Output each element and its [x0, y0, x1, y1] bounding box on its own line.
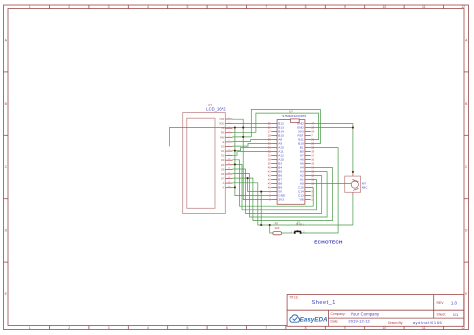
- wire LCD pin16 K stub to GND column: [233, 186, 235, 188]
- svg-text:D0: D0: [221, 145, 225, 149]
- svg-text:6: 6: [226, 5, 228, 9]
- junction dot 5V pin row: [260, 191, 262, 193]
- svg-text:Company:: Company:: [331, 312, 346, 316]
- junction dot D1 row / GND column: [234, 150, 236, 152]
- U1 right pin names GND..VB: [297, 122, 305, 202]
- wire net B1: U1 B1 down to push button pin 2: [302, 148, 338, 233]
- svg-text:2: 2: [68, 326, 70, 330]
- svg-text:ECHOTECH: ECHOTECH: [314, 240, 343, 245]
- svg-text:D6: D6: [221, 172, 225, 176]
- svg-text:40: 40: [268, 166, 271, 170]
- wire resistor R? to push button pin 1: [282, 232, 293, 234]
- svg-text:LCD_16*2: LCD_16*2: [206, 106, 226, 111]
- wire net B12: LCD pin2 VDD to U1 B12: [233, 123, 272, 125]
- frame row ticks left: [4, 72, 9, 262]
- microphone M1 bottom pin stub: [352, 192, 354, 195]
- junction dot RW row crossing: [242, 136, 244, 138]
- junction dot D7 row 5V tap: [247, 177, 249, 179]
- svg-text:10: 10: [383, 5, 387, 9]
- svg-text:TITLE:: TITLE:: [289, 296, 299, 300]
- svg-text:3V3: 3V3: [278, 198, 284, 202]
- svg-text:38: 38: [268, 158, 271, 162]
- svg-text:Date:: Date:: [331, 320, 339, 324]
- svg-text:45: 45: [268, 182, 271, 186]
- wire MIC bottom pin down to backlight row: [352, 196, 354, 226]
- wire net A10: LCD pin8 D1 to U1 A10: [233, 148, 272, 151]
- EasyEDA logo cloud: [290, 315, 300, 322]
- svg-text:1: 1: [29, 5, 31, 9]
- frame row letters left: [5, 38, 8, 296]
- svg-text:4: 4: [147, 5, 149, 9]
- svg-text:RS: RS: [221, 131, 225, 135]
- LCD pin numbers 1-16: [228, 117, 231, 188]
- svg-text:28: 28: [268, 134, 271, 138]
- wire net A9: LCD pin7 D0 to U1 A9: [233, 144, 272, 147]
- svg-text:15: 15: [311, 162, 314, 166]
- svg-text:27: 27: [268, 130, 271, 134]
- junction dot K / GND column: [234, 186, 236, 188]
- svg-text:VSS: VSS: [219, 117, 224, 121]
- svg-text:1: 1: [29, 326, 31, 330]
- svg-text:MIC: MIC: [362, 185, 368, 189]
- svg-text:41: 41: [268, 170, 271, 174]
- LCD pin names VSS..K: [219, 117, 225, 190]
- title block vertical divider logo cell: [327, 310, 329, 326]
- svg-text:11: 11: [422, 5, 426, 9]
- svg-text:D1: D1: [221, 149, 225, 153]
- U1 USB connector notch: [291, 119, 300, 123]
- svg-text:3: 3: [108, 326, 110, 330]
- wire net A2: LCD pin12 D5 wrap under U1 to A2: [233, 169, 322, 213]
- svg-text:24: 24: [311, 130, 314, 134]
- wire net C15: LCD pin10 D3 wrap under U1 to C15: [233, 160, 314, 206]
- LCD pin stubs 1-16: [225, 119, 232, 188]
- svg-text:33: 33: [268, 154, 271, 158]
- svg-text:VB: VB: [300, 198, 304, 202]
- frame column numbers top: [29, 5, 465, 9]
- svg-text:220: 220: [275, 226, 280, 230]
- svg-text:RW: RW: [220, 135, 225, 139]
- svg-text:5: 5: [186, 5, 188, 9]
- svg-text:3: 3: [108, 5, 110, 9]
- wire net LCD-A backlight row to MIC bottom column: [233, 183, 353, 225]
- svg-text:V0: V0: [221, 126, 225, 130]
- junction dot GND2 joins MIC column: [352, 127, 354, 129]
- title block vertical divider REV cell: [433, 295, 435, 319]
- svg-text:E: E: [223, 140, 225, 144]
- svg-text:STM32F103C8T6: STM32F103C8T6: [282, 114, 306, 118]
- svg-text:PUSH: PUSH: [296, 223, 304, 227]
- wire net GND-left: column from V0 row to U1 GND: [235, 128, 271, 196]
- U1 right pin stubs: [305, 124, 311, 200]
- junction dot resistor tap: [269, 224, 271, 226]
- svg-text:aydinali0156: aydinali0156: [413, 320, 443, 325]
- wire net GND: U1 GND right pin to MIC top: [311, 124, 353, 173]
- svg-text:7: 7: [265, 326, 267, 330]
- microcontroller U1 STM32F103C8T6 body: [277, 120, 305, 205]
- svg-text:D3: D3: [221, 158, 225, 162]
- frame column numbers bottom: [29, 326, 465, 330]
- svg-text:2: 2: [68, 5, 70, 9]
- LCD module U? LCD_16*2 outer body: [183, 113, 226, 214]
- microphone M1 top pin stub: [352, 173, 354, 177]
- junction dot D4 row / GND column: [234, 163, 236, 165]
- title block outline: [287, 295, 464, 327]
- junction dot V0/3V3 column: [242, 127, 244, 129]
- wire net B11: LCD pin4 RS over top to U1 B11: [233, 113, 319, 140]
- wire net A3: LCD pin13 D6 wrap under U1 to A3: [233, 172, 328, 217]
- svg-text:5: 5: [186, 326, 188, 330]
- wire net GND2: U1 second GND right pin joins MIC column: [311, 127, 353, 129]
- svg-text:17: 17: [311, 154, 314, 158]
- svg-text:18: 18: [311, 150, 314, 154]
- svg-text:12: 12: [461, 5, 465, 9]
- wire net 5V: tap from D7 row to U1 5V pin: [248, 178, 272, 192]
- svg-text:42: 42: [268, 174, 271, 178]
- svg-text:2019-12-12: 2019-12-12: [348, 319, 370, 324]
- wire net A8: LCD pin6 E to U1 A8: [233, 140, 272, 142]
- svg-text:D4: D4: [221, 163, 225, 167]
- svg-text:1/1: 1/1: [453, 313, 458, 317]
- wire net 5V drop to backlight row: [260, 192, 262, 225]
- svg-text:7: 7: [265, 5, 267, 9]
- junction dot MIC top pin: [352, 171, 354, 173]
- svg-text:Sheet_1: Sheet_1: [312, 300, 336, 306]
- U1 left pin stubs: [271, 124, 277, 200]
- microphone M1 slash strokes: [352, 180, 358, 191]
- frame row letters right: [465, 38, 468, 296]
- wire backlight row tap down to resistor R?: [270, 225, 273, 233]
- svg-text:VDD: VDD: [219, 122, 225, 126]
- LCD display window inner rect: [187, 118, 215, 208]
- title block row divider 2: [328, 317, 463, 319]
- svg-text:D2: D2: [221, 154, 225, 158]
- frame row ticks right: [464, 72, 469, 262]
- wire net A0: U1 A0 to MIC left pin: [311, 183, 345, 185]
- svg-text:16: 16: [311, 158, 314, 162]
- wire net 3V3: LCD pin1 VSS down column to U1 3V3: [233, 119, 272, 199]
- svg-text:43: 43: [268, 178, 271, 182]
- svg-text:EasyEDA: EasyEDA: [300, 316, 328, 323]
- frame column ticks bottom: [50, 326, 444, 330]
- wire net B10: LCD pin5 RW over top to U1 B10: [233, 110, 321, 144]
- svg-text:8: 8: [305, 5, 307, 9]
- U1 right pin numbers: [311, 122, 314, 202]
- wire net A4: LCD pin14 D7 wrap under U1 to A4: [233, 168, 333, 221]
- resistor R? body: [273, 232, 282, 235]
- wire net A1: LCD pin11 D4 wrap under U1 to A1: [233, 164, 317, 209]
- wire net A11: LCD pin9 D2 to U1 A11: [233, 152, 272, 156]
- microphone M1 body box: [345, 176, 361, 192]
- svg-text:9: 9: [344, 5, 346, 9]
- svg-text:46: 46: [268, 186, 271, 190]
- U1 left pin names B12..3V3: [278, 122, 286, 202]
- U1 left pin numbers: [268, 122, 272, 202]
- junction dot V0/GND column: [234, 127, 236, 129]
- svg-text:D7: D7: [221, 177, 225, 181]
- svg-text:Sheet:: Sheet:: [437, 313, 447, 317]
- junction dot 5V drop on backlight row: [260, 224, 262, 226]
- svg-text:D5: D5: [221, 167, 225, 171]
- svg-text:6: 6: [226, 326, 228, 330]
- svg-text:39: 39: [268, 162, 271, 166]
- push button S? terminals and cap: [294, 230, 302, 234]
- svg-text:Your Company: Your Company: [351, 311, 381, 316]
- svg-text:REV: REV: [437, 301, 445, 305]
- svg-text:Drawn By:: Drawn By:: [388, 321, 403, 325]
- microphone M1 capsule circle: [351, 181, 358, 188]
- frame column ticks top: [50, 5, 444, 9]
- title block row divider 1: [287, 309, 464, 311]
- svg-text:K: K: [223, 186, 225, 190]
- wire net B13: dangling stub, across LCD pin3 V0 to U1 B13: [169, 128, 271, 147]
- microphone M1 left pin stub: [345, 183, 352, 185]
- svg-text:1.0: 1.0: [451, 300, 458, 305]
- svg-text:A: A: [223, 181, 225, 185]
- svg-text:4: 4: [147, 326, 149, 330]
